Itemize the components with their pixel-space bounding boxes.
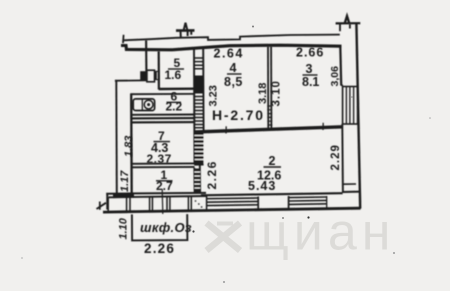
svg-text:Н-2.70: Н-2.70: [212, 107, 265, 123]
room 7 number underline: [154, 141, 171, 143]
svg-text:5.43: 5.43: [248, 179, 276, 193]
svg-text:4: 4: [230, 61, 237, 75]
central wall door hatch 6-4: [194, 97, 203, 128]
bottom outer wall thick: [103, 208, 361, 212]
tick on room2 top wall right: [322, 123, 324, 130]
top outer wall line: [123, 35, 339, 41]
svg-text:3.10: 3.10: [271, 80, 283, 106]
dots in last balcony box: [195, 200, 203, 208]
left inner wall of rooms 6,7,1: [130, 94, 133, 197]
room 1 bottom wall: [106, 192, 206, 195]
room 5 number underline: [168, 68, 184, 70]
svg-text:шкф.Оз: шкф.Оз: [140, 220, 192, 235]
room 5 / room 6 wall: [159, 87, 194, 90]
top-right corner step: [339, 23, 341, 31]
room 2 number underline: [264, 166, 282, 168]
shaft connector: [341, 84, 343, 86]
main top wall of rooms: [121, 45, 342, 50]
room 2 bottom inner line: [201, 193, 343, 195]
svg-text:8,5: 8,5: [224, 75, 243, 89]
room 1 number underline: [156, 180, 173, 182]
step-out wall top-left: [115, 79, 147, 81]
window glazing right of door: [289, 197, 327, 204]
svg-text:2.37: 2.37: [147, 152, 172, 166]
central wall jog at room1: [194, 164, 203, 166]
room 5 box left wall: [158, 52, 160, 90]
balcony strip left edge: [107, 197, 109, 211]
shkaf leader line: [161, 189, 164, 214]
room 4 number underline: [227, 73, 242, 75]
dimension arrow tick bottom-left: [97, 203, 107, 209]
tick on room2 top wall left: [225, 126, 227, 133]
top-left wall end tick: [122, 35, 125, 43]
svg-text:2: 2: [269, 154, 276, 168]
svg-text:3,06: 3,06: [329, 66, 341, 87]
svg-text:2.26: 2.26: [205, 160, 219, 189]
top-right vent symbol: [345, 16, 349, 23]
svg-text:2.64: 2.64: [214, 47, 244, 61]
svg-text:2.66: 2.66: [296, 46, 324, 60]
central wall upper section: [193, 48, 196, 165]
svg-text:2.26: 2.26: [144, 241, 175, 256]
duct block with stripes: [343, 87, 358, 125]
room1-room2 wall hatch: [194, 169, 200, 194]
svg-text:1.10: 1.10: [117, 217, 129, 239]
svg-text:2.7: 2.7: [156, 179, 173, 193]
svg-text:2.29: 2.29: [330, 144, 342, 170]
room 2 right wall: [341, 124, 344, 193]
left outer wall: [115, 81, 118, 194]
hatch on wall 4-3: [267, 106, 272, 125]
room 3 number underline: [303, 74, 318, 76]
vent symbol on top wall: [176, 29, 195, 32]
svg-text:8.1: 8.1: [302, 75, 319, 89]
room 2 top wall: [195, 127, 343, 132]
door mark near 1.6: [155, 71, 159, 79]
svg-text:щиан: щиан: [246, 204, 395, 262]
room 5 left outer wall: [145, 41, 147, 81]
balcony strip dividers: [127, 197, 130, 212]
svg-text:1.17: 1.17: [119, 170, 131, 192]
svg-text:2.2: 2.2: [166, 100, 183, 114]
room 7 bottom wall: [131, 162, 195, 164]
central wall door hatch 5-4: [194, 58, 203, 69]
room1-room2 wall: [193, 168, 195, 193]
room 6 number underline: [167, 101, 182, 103]
wall room4-room3: [267, 47, 269, 129]
window glazing left of door: [207, 198, 258, 206]
svg-text:1.83: 1.83: [123, 136, 135, 157]
central wall solid poche: [194, 76, 203, 94]
balcony strip top line: [109, 196, 207, 197]
svg-text:3.23: 3.23: [208, 85, 220, 106]
watermark циан: [207, 204, 396, 262]
room 3 right wall: [339, 46, 342, 86]
bay top wall bottom right: [342, 183, 356, 185]
room 5 appendage box: [147, 70, 155, 82]
room 6 bottom lines / wall 6-7: [132, 114, 194, 116]
svg-text:3: 3: [306, 62, 313, 76]
right outer wall: [356, 23, 360, 208]
toilet icon in room 6: [133, 99, 154, 111]
svg-text:1.6: 1.6: [165, 68, 182, 82]
svg-text:3.18: 3.18: [257, 83, 269, 104]
balcony door panel: [258, 196, 288, 209]
central wall hatch 7-2: [195, 132, 204, 165]
shkaf box: [132, 214, 188, 240]
